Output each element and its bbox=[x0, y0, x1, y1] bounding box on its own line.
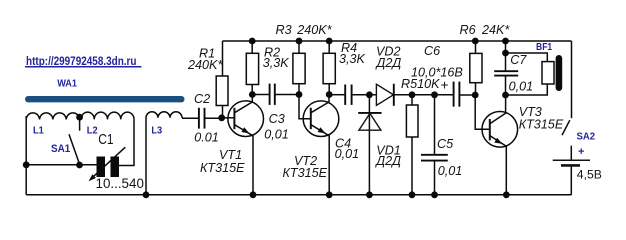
svg-text:КТ315Е: КТ315Е bbox=[200, 161, 245, 175]
node VD1 bottom bbox=[366, 191, 373, 198]
resistor R5 bbox=[406, 95, 418, 195]
svg-text:http://299792458.3dn.ru: http://299792458.3dn.ru bbox=[26, 54, 137, 68]
inductor L1 bbox=[26, 113, 79, 120]
inductor L2 bbox=[81, 112, 134, 119]
variable capacitor C1 bbox=[89, 147, 126, 181]
node VT2 emitter bottom bbox=[326, 191, 333, 198]
node R6 bottom bbox=[472, 92, 479, 99]
node VT1 emitter bottom bbox=[250, 191, 257, 198]
svg-text:C5: C5 bbox=[437, 137, 454, 151]
node VT2 collector bbox=[326, 91, 333, 98]
capacitor C6 bbox=[454, 82, 476, 107]
node R6 top bbox=[472, 38, 479, 45]
svg-text:SA2: SA2 bbox=[577, 131, 596, 143]
switch SA1 bbox=[69, 118, 80, 164]
left vertical wire bbox=[25, 116, 27, 195]
svg-text:+: + bbox=[441, 78, 449, 93]
wire VT3 base bbox=[475, 95, 490, 129]
svg-text:240K*: 240K* bbox=[187, 58, 223, 72]
svg-text:Д2Д: Д2Д bbox=[374, 154, 401, 168]
switch SA2 bbox=[562, 120, 570, 135]
node VT3 collector / C7 bottom bbox=[502, 92, 509, 99]
wire VT2 base bbox=[299, 95, 311, 119]
wire L2 to C1 bbox=[119, 119, 134, 165]
resistor R4 bbox=[323, 41, 335, 95]
node C7 top rail bbox=[502, 38, 509, 45]
node R4 top bbox=[326, 38, 333, 45]
capacitor C4 bbox=[329, 85, 369, 105]
svg-text:КТ315Е: КТ315Е bbox=[519, 117, 564, 131]
svg-text:10...540: 10...540 bbox=[96, 176, 144, 191]
svg-text:C1: C1 bbox=[98, 132, 113, 148]
bottom rail wire bbox=[26, 194, 571, 196]
svg-text:Д2Д: Д2Д bbox=[375, 56, 402, 70]
svg-text:0,01: 0,01 bbox=[264, 128, 289, 142]
resistor R1 bbox=[216, 41, 228, 118]
svg-text:3,3K: 3,3K bbox=[339, 52, 366, 66]
svg-text:BF1: BF1 bbox=[536, 42, 553, 53]
svg-text:C7: C7 bbox=[510, 53, 527, 67]
url text bbox=[25, 54, 142, 68]
svg-text:+: + bbox=[578, 146, 584, 158]
inductor L3 bbox=[146, 112, 199, 195]
antenna WA1 ferrite bar bbox=[25, 96, 185, 102]
svg-text:0,01: 0,01 bbox=[509, 80, 534, 94]
node R3 bottom bbox=[296, 91, 303, 98]
svg-text:КТ315Е: КТ315Е bbox=[283, 166, 328, 180]
right drop wire to SA2 bbox=[571, 41, 573, 118]
capacitor C2 bbox=[199, 108, 222, 129]
resistor R3 bbox=[293, 41, 305, 95]
node BF1 top branch bbox=[502, 50, 509, 57]
wire battery to bottom rail bbox=[570, 165, 572, 194]
svg-text:VT1: VT1 bbox=[219, 148, 242, 162]
capacitor C3 bbox=[252, 84, 299, 105]
node C5 bottom bbox=[431, 191, 438, 198]
node L1-L2 junction bbox=[76, 114, 83, 121]
transistor VT2 bbox=[303, 95, 339, 195]
svg-text:0,01: 0,01 bbox=[438, 164, 463, 178]
svg-text:SA1: SA1 bbox=[51, 143, 70, 155]
node VT1 base bbox=[218, 114, 225, 121]
node R5 bottom bbox=[409, 191, 416, 198]
svg-text:0.01: 0.01 bbox=[194, 130, 219, 144]
speaker BF1 bbox=[542, 55, 562, 91]
svg-text:4,5В: 4,5В bbox=[577, 167, 602, 181]
wire BF1 top bbox=[506, 53, 548, 62]
node VT3 emitter bottom bbox=[503, 191, 510, 198]
wire tank bottom bbox=[26, 164, 96, 166]
node VT1 collector bbox=[249, 91, 256, 98]
capacitor C5 bbox=[421, 95, 448, 195]
svg-text:С2: С2 bbox=[194, 92, 210, 106]
svg-text:L2: L2 bbox=[87, 124, 98, 136]
wire R5 to C6 bbox=[412, 94, 454, 96]
svg-text:WA1: WA1 bbox=[57, 79, 77, 90]
svg-text:10,0*16В: 10,0*16В bbox=[411, 66, 463, 80]
node R3 top bbox=[296, 38, 303, 45]
node VD1/VD2 junction bbox=[366, 91, 373, 98]
resistor R2 bbox=[246, 41, 258, 95]
transistor VT3 bbox=[482, 95, 518, 195]
svg-text:R624K*: R624K* bbox=[460, 23, 511, 37]
svg-text:C3: C3 bbox=[269, 112, 285, 126]
diode VD1 bbox=[358, 95, 381, 195]
node R5 top bbox=[409, 91, 416, 98]
diode VD2 bbox=[369, 84, 412, 106]
svg-text:0,01: 0,01 bbox=[335, 147, 360, 161]
transistor VT1 bbox=[228, 95, 264, 195]
node SA1 bottom bbox=[76, 162, 83, 169]
svg-text:L3: L3 bbox=[151, 124, 162, 136]
svg-text:R3240K*: R3240K* bbox=[276, 23, 333, 37]
svg-text:3,3K: 3,3K bbox=[263, 56, 290, 70]
node R2 top bbox=[249, 38, 256, 45]
svg-text:C6: C6 bbox=[424, 44, 440, 58]
resistor R6 bbox=[470, 41, 482, 95]
top rail wire bbox=[223, 40, 572, 42]
wire base VT1 bbox=[222, 117, 235, 119]
svg-text:L1: L1 bbox=[33, 125, 44, 137]
node tank bottom left bbox=[23, 161, 30, 168]
wire BF1 bottom bbox=[506, 84, 548, 95]
node L3 bottom bbox=[143, 191, 150, 198]
battery GB1 bbox=[553, 160, 590, 165]
node C5 top bbox=[431, 91, 438, 98]
capacitor C7 bbox=[494, 41, 518, 95]
